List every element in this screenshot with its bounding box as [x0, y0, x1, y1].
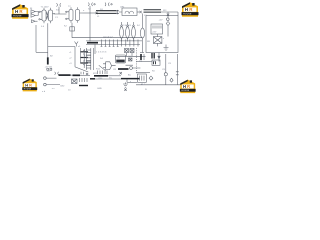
component stub row below bus	[95, 40, 138, 55]
far right vertical with ticks	[176, 54, 179, 85]
ticks bottom left cluster	[52, 78, 88, 90]
long bottom lines right	[136, 84, 181, 86]
svg-text:AC: AC	[128, 74, 131, 77]
circle node	[130, 67, 133, 70]
svg-text:24V: 24V	[152, 32, 156, 34]
bottom middle ticks row	[98, 71, 108, 75]
vertical connector	[126, 79, 128, 82]
horizontal y46.5 to ladder	[48, 46, 75, 48]
two X boxes under bus	[125, 49, 135, 57]
svg-text:+5V: +5V	[159, 20, 163, 22]
thick bus A	[94, 75, 108, 77]
ground bottom middle	[123, 82, 128, 91]
svg-text:T1 10kV: T1 10kV	[41, 6, 50, 8]
bottom thick bus left	[59, 74, 71, 76]
left border vertical	[35, 25, 37, 52]
x junction	[95, 12, 97, 14]
transformer T1	[39, 6, 55, 23]
svg-text:z: z	[130, 81, 131, 83]
right mid components	[136, 53, 167, 85]
thick dark segment mid-left	[87, 42, 98, 44]
bottom-left contact + circles	[44, 70, 60, 85]
top contact pair C	[105, 3, 112, 6]
svg-text:1 2 3 4 5 6: 1 2 3 4 5 6	[96, 51, 107, 53]
thick vertical bar left	[47, 47, 49, 58]
antenna Y	[75, 42, 79, 47]
big rectangle right block	[146, 12, 178, 53]
thin y79.4	[95, 78, 121, 80]
vertical wire x142.5 with oval	[140, 14, 145, 53]
IC box U5	[116, 55, 126, 63]
diamond node bottom right	[170, 78, 173, 82]
ovals fuses (3)	[120, 22, 136, 42]
logo bottom-left	[22, 79, 37, 92]
misc tiny labels	[30, 6, 172, 93]
thick bus top right	[144, 9, 162, 11]
relay box bottom right	[138, 74, 147, 82]
small X box right of IC	[129, 58, 133, 61]
horizontal y56.3	[116, 55, 146, 57]
X mark	[120, 72, 122, 74]
pentagon comparator	[103, 62, 116, 70]
transformer T2	[66, 6, 83, 23]
dashed vertical	[136, 48, 138, 74]
top contact pair A	[54, 3, 67, 14]
svg-text:CN2: CN2	[60, 86, 65, 88]
svg-text:GN: GN	[152, 61, 156, 63]
wire from T2 to bus	[83, 12, 91, 14]
breaker box top right	[122, 8, 142, 16]
svg-text:F1 F2 F3: F1 F2 F3	[122, 25, 132, 27]
svg-text:+5V: +5V	[47, 70, 51, 72]
svg-text:CN4: CN4	[98, 78, 103, 80]
thick bus top middle	[96, 10, 116, 12]
wire to right block	[161, 11, 178, 13]
thick bus B	[121, 78, 140, 80]
logo bottom-right	[180, 80, 196, 93]
right dark rung ladder	[69, 48, 88, 65]
diagonal lower left	[75, 67, 88, 72]
thin y76	[108, 75, 121, 77]
top contact pair B	[88, 3, 95, 6]
logo top-left	[12, 4, 29, 19]
svg-text:C5 C6 C7: C5 C6 C7	[103, 36, 113, 38]
thick dark segment under IC	[118, 68, 129, 70]
short thick C	[90, 78, 95, 80]
aux strip column	[83, 49, 85, 68]
relay K2 box below T2	[70, 27, 75, 31]
svg-text:GND: GND	[97, 88, 102, 90]
middle bus lines	[86, 40, 142, 42]
connector strip center	[83, 48, 94, 70]
logo top-right	[182, 2, 199, 17]
bus end terminals	[116, 11, 122, 14]
diagonal center	[99, 65, 106, 70]
vertical wire x90	[89, 6, 91, 41]
terminal arrows left	[31, 10, 38, 23]
wire to x junction	[90, 12, 95, 14]
long thin line y38	[72, 37, 143, 39]
left vertical wires	[47, 23, 49, 46]
box with X bottom left	[72, 79, 78, 84]
